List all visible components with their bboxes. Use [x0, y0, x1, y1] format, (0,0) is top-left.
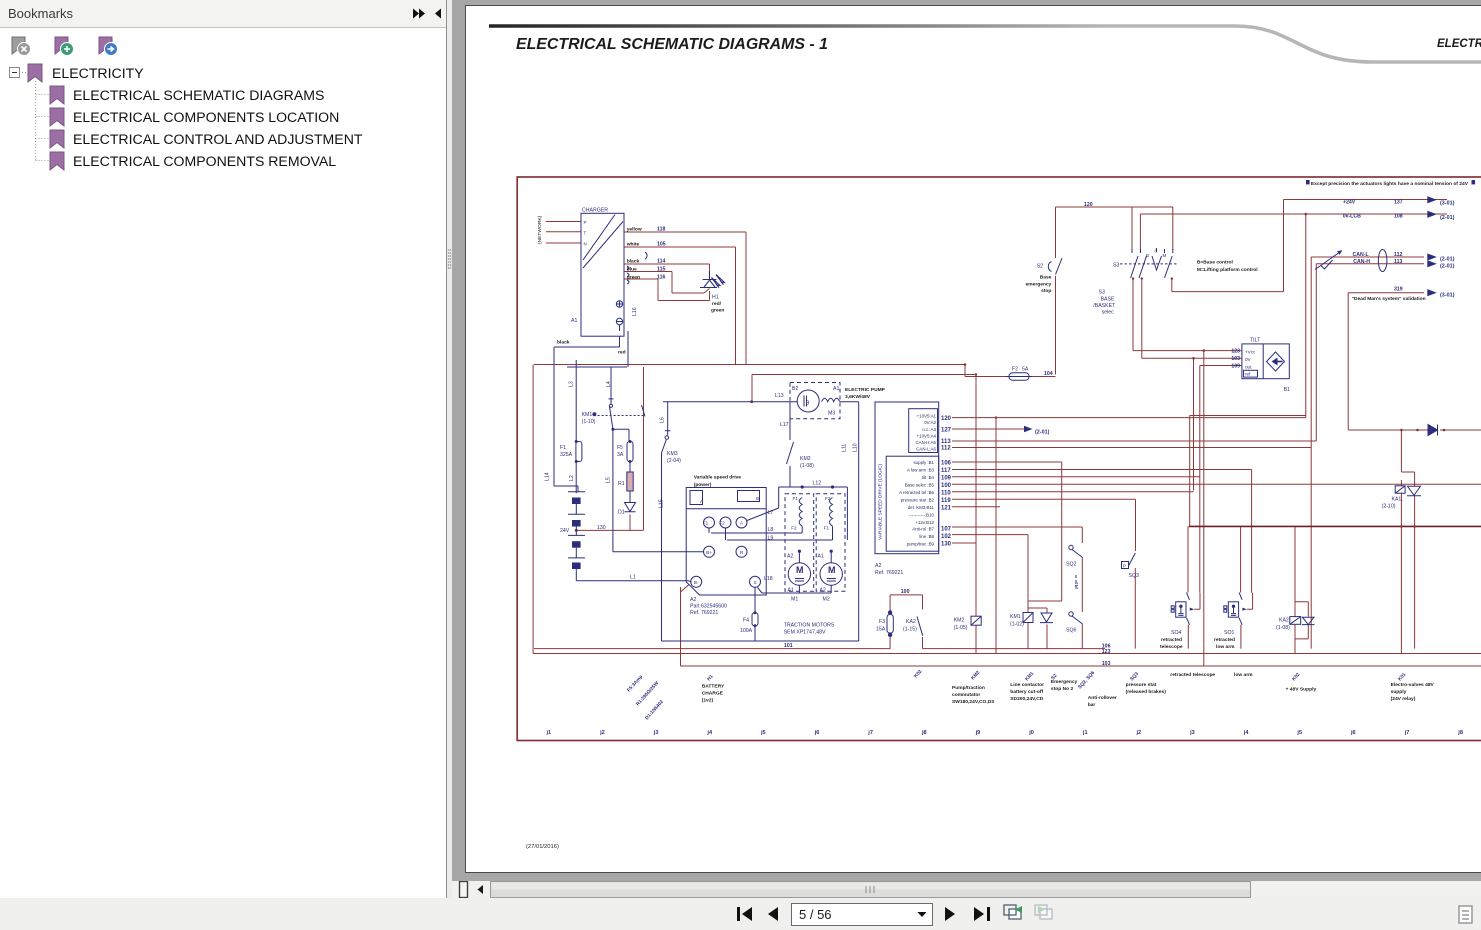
svg-text:108: 108 [1394, 214, 1403, 220]
svg-text:F2: F2 [791, 526, 797, 531]
svg-text:113: 113 [1394, 259, 1402, 265]
svg-text:130: 130 [597, 525, 606, 531]
svg-text:bar: bar [1088, 702, 1096, 708]
svg-text:stop: stop [1041, 288, 1051, 294]
svg-text:KM1: KM1 [1010, 614, 1021, 620]
svg-text:(1-08): (1-08) [1276, 625, 1290, 631]
svg-text:A1: A1 [833, 386, 839, 392]
svg-text:A low arm :B3: A low arm :B3 [907, 468, 935, 473]
svg-text:Anti-rol :B7: Anti-rol :B7 [912, 527, 934, 532]
svg-text:Pump/traction: Pump/traction [952, 685, 985, 691]
svg-text:(1-08): (1-08) [800, 463, 814, 469]
svg-text:line :B8: line :B8 [919, 534, 934, 539]
svg-text:H1: H1 [712, 295, 719, 301]
svg-text:117: 117 [941, 468, 951, 474]
svg-text:"Dead Man's system" validation: "Dead Man's system" validation [1352, 296, 1426, 302]
svg-text:113: 113 [941, 439, 951, 445]
svg-text:103: 103 [1102, 661, 1111, 667]
svg-text:A2: A2 [820, 588, 826, 594]
svg-text:130: 130 [941, 542, 952, 548]
svg-text:+10V5:A1: +10V5:A1 [917, 414, 937, 419]
svg-text:L7: L7 [768, 510, 774, 516]
svg-text:black: black [627, 259, 640, 265]
svg-text:stop No 2: stop No 2 [1051, 686, 1074, 692]
svg-text:119: 119 [941, 498, 951, 504]
svg-text:red/: red/ [712, 301, 722, 307]
svg-text:Electro-valves 48V: Electro-valves 48V [1391, 682, 1435, 688]
svg-text:CAN-H: CAN-H [1353, 259, 1370, 265]
svg-text:L10: L10 [853, 443, 859, 452]
svg-text:319: 319 [1394, 287, 1403, 293]
svg-text:127: 127 [941, 428, 952, 434]
svg-text:low arm: low arm [1234, 672, 1253, 678]
svg-text:105: 105 [657, 242, 666, 248]
svg-text:L4: L4 [606, 381, 612, 387]
svg-text:(2-01): (2-01) [1440, 257, 1455, 263]
svg-text:red: red [618, 350, 626, 356]
svg-text:M3: M3 [828, 411, 835, 417]
svg-text:P: P [1123, 563, 1126, 568]
svg-text:15A: 15A [876, 627, 886, 633]
svg-text:battery cut-off: battery cut-off [1010, 689, 1043, 695]
svg-text:L3: L3 [569, 381, 575, 387]
svg-text:Base selec :B5: Base selec :B5 [905, 483, 935, 488]
svg-text:out: out [1245, 365, 1252, 370]
svg-text:emergency: emergency [1026, 281, 1052, 287]
svg-text:SQ3: SQ3 [1129, 573, 1139, 579]
svg-text:L2: L2 [569, 475, 575, 481]
svg-text:ELECTRICAL SCHEMATIC DIAGRAMS: ELECTRICAL SCHEMATIC DIAGRAMS - 1 [516, 36, 828, 53]
svg-text:123: 123 [1102, 649, 1111, 655]
svg-text:pump/trac :B9: pump/trac :B9 [907, 542, 935, 547]
svg-text:white: white [626, 242, 640, 248]
svg-text:B+: B+ [706, 550, 712, 555]
svg-text:3,6KW/48V: 3,6KW/48V [845, 394, 871, 400]
svg-text:ϳ8: ϳ8 [921, 730, 927, 736]
svg-text:(2-04): (2-04) [667, 458, 681, 464]
svg-text:(power): (power) [694, 482, 712, 488]
svg-text:A2: A2 [787, 554, 793, 560]
svg-text:SQ2: SQ2 [1066, 562, 1076, 568]
svg-text:F1: F1 [793, 496, 799, 501]
svg-text:KM1: KM1 [582, 412, 593, 418]
svg-text:M: M [796, 565, 804, 575]
svg-text:KM2: KM2 [954, 618, 965, 624]
svg-text:(2-10): (2-10) [1382, 504, 1396, 510]
svg-text:0V: 0V [1245, 357, 1252, 362]
svg-text:S: S [753, 580, 756, 585]
svg-text:B=Base control: B=Base control [1197, 260, 1234, 266]
svg-text:blue: blue [627, 267, 637, 273]
svg-text:BASE: BASE [1101, 297, 1115, 303]
svg-text:M: M [1163, 253, 1167, 258]
svg-text:D1: D1 [618, 510, 625, 516]
svg-text:ɜ: ɜ [806, 400, 809, 407]
svg-text:5 / 56: 5 / 56 [799, 907, 832, 922]
svg-text:ELECTRICAL COMPONENTS LOCATION: ELECTRICAL COMPONENTS LOCATION [73, 109, 339, 125]
svg-text:T: T [584, 231, 587, 236]
svg-text:/BASKET: /BASKET [1093, 303, 1116, 309]
svg-text:F2: F2 [825, 496, 831, 501]
svg-text:+12v:B12: +12v:B12 [915, 520, 934, 525]
svg-text:F1: F1 [824, 526, 830, 531]
svg-text:ELECTRIC: ELECTRIC [1437, 38, 1481, 50]
svg-text:0v-LCB: 0v-LCB [1343, 214, 1361, 220]
svg-text:SEM XP1747,48V: SEM XP1747,48V [784, 630, 826, 636]
svg-text:+ 48V Supply: + 48V Supply [1286, 687, 1317, 693]
svg-text:123: 123 [1231, 349, 1240, 355]
svg-text:KA2: KA2 [906, 619, 916, 625]
svg-text:F4: F4 [743, 618, 749, 624]
svg-text:137: 137 [1394, 200, 1403, 206]
svg-text:B: B [756, 496, 759, 501]
svg-text:CAN-H:A5: CAN-H:A5 [916, 440, 937, 445]
svg-text:L16: L16 [632, 307, 638, 316]
svg-text:116: 116 [657, 275, 665, 281]
svg-text:Line contactor: Line contactor [1010, 682, 1044, 688]
svg-text:S3: S3 [1099, 290, 1105, 296]
svg-text:ϳ2: ϳ2 [1136, 730, 1142, 736]
svg-text:A2: A2 [875, 563, 881, 569]
svg-text:100A: 100A [740, 628, 753, 634]
svg-text:L13: L13 [775, 393, 784, 399]
svg-text:120: 120 [941, 416, 952, 422]
svg-text:(2-01): (2-01) [1440, 215, 1455, 221]
svg-text:B-: B- [694, 580, 699, 585]
svg-text:low arm: low arm [1216, 644, 1235, 650]
svg-text:R1: R1 [618, 481, 625, 487]
svg-text:A1: A1 [571, 318, 577, 324]
svg-text:ϳ7: ϳ7 [1404, 730, 1410, 736]
svg-text:(3-01): (3-01) [1440, 293, 1455, 299]
svg-text:black: black [557, 340, 570, 346]
svg-text:Except precision the actuators: Except precision the actuators lights ha… [1311, 181, 1469, 187]
svg-text:L17: L17 [780, 422, 789, 428]
svg-text:SO1: SO1 [1224, 630, 1234, 636]
svg-text:0V:A2: 0V:A2 [924, 420, 936, 425]
svg-text:M=Lifting platform control: M=Lifting platform control [1197, 267, 1258, 273]
svg-text:-----------:B10: -----------:B10 [909, 513, 935, 518]
svg-text:(2-01): (2-01) [1035, 430, 1050, 436]
svg-text:(1-10): (1-10) [582, 419, 596, 425]
svg-text:101: 101 [784, 643, 793, 649]
svg-text:L12: L12 [813, 481, 822, 487]
svg-text:(1-15): (1-15) [903, 627, 917, 633]
svg-text:S3: S3 [1113, 263, 1119, 269]
svg-text:B1: B1 [1284, 387, 1290, 393]
svg-text:A1: A1 [818, 554, 824, 560]
svg-text:L6: L6 [660, 417, 666, 423]
svg-text:115: 115 [657, 267, 665, 273]
svg-text:109: 109 [1231, 364, 1240, 370]
svg-text:ϳ9: ϳ9 [975, 730, 981, 736]
svg-text:ELECTRIC PUMP: ELECTRIC PUMP [845, 387, 886, 393]
svg-text:M: M [828, 565, 836, 575]
svg-text:A2: A2 [690, 597, 696, 603]
svg-text:commutator: commutator [952, 692, 980, 698]
svg-text:0: 0 [1155, 249, 1158, 254]
svg-text:112: 112 [1394, 252, 1402, 258]
svg-text:ϳ5: ϳ5 [1296, 730, 1302, 736]
svg-text:F2: F2 [1012, 367, 1018, 373]
svg-text:retracted telescope: retracted telescope [1170, 672, 1215, 678]
svg-text:retracted: retracted [1161, 637, 1182, 643]
svg-text:L14: L14 [545, 472, 551, 481]
svg-text:L11: L11 [1074, 581, 1079, 589]
svg-text:104: 104 [1044, 371, 1053, 377]
svg-text:+10V5:A4: +10V5:A4 [917, 434, 937, 439]
svg-text:F3: F3 [879, 619, 885, 625]
svg-text:L15: L15 [659, 499, 665, 508]
svg-text:(3-01): (3-01) [1440, 201, 1455, 207]
svg-text:TILT: TILT [1250, 338, 1261, 344]
svg-text:ELECTRICAL SCHEMATIC DIAGRAMS: ELECTRICAL SCHEMATIC DIAGRAMS [73, 87, 324, 103]
svg-text:Anti-rollover: Anti-rollover [1088, 695, 1117, 701]
svg-text:CHARGE: CHARGE [702, 691, 724, 697]
svg-text:109: 109 [941, 476, 952, 482]
svg-text:F5: F5 [617, 445, 623, 451]
svg-text:B: B [1146, 253, 1149, 258]
svg-text:118: 118 [657, 227, 665, 233]
svg-text:+Vcc: +Vcc [1245, 350, 1256, 355]
svg-text:telescope: telescope [1160, 644, 1183, 650]
svg-text:106: 106 [941, 461, 952, 467]
svg-text:supply: supply [1391, 689, 1407, 695]
svg-text:(NETWORK): (NETWORK) [537, 215, 543, 244]
svg-text:L8: L8 [768, 527, 774, 533]
svg-text:F1: F1 [703, 521, 709, 526]
svg-text:KM3: KM3 [667, 451, 678, 457]
svg-text:CAN-L: CAN-L [1353, 252, 1370, 258]
svg-text:ϳ4: ϳ4 [1243, 730, 1250, 736]
svg-text:110: 110 [941, 491, 951, 497]
svg-text:SQ6: SQ6 [1066, 628, 1076, 634]
svg-text:Ref. 769221: Ref. 769221 [875, 570, 903, 576]
svg-text:SD200,24V,CD: SD200,24V,CD [1010, 696, 1043, 702]
svg-text:CHARGER: CHARGER [582, 208, 608, 214]
svg-text:ϳ0: ϳ0 [1028, 730, 1034, 736]
svg-text:A1: A1 [788, 588, 794, 594]
svg-text:Part 632545600: Part 632545600 [690, 604, 727, 610]
svg-text:N: N [584, 242, 587, 247]
svg-text:(1-02): (1-02) [1010, 622, 1024, 628]
svg-text:ϳ5: ϳ5 [760, 730, 766, 736]
svg-text:F1: F1 [560, 445, 566, 451]
svg-text:102: 102 [941, 534, 952, 540]
svg-text:TRACTION MOTORS: TRACTION MOTORS [784, 623, 835, 629]
svg-text:yellow: yellow [627, 227, 642, 233]
svg-text:ϳ4: ϳ4 [706, 730, 713, 736]
svg-text:L5: L5 [606, 477, 612, 483]
svg-text:(1v2): (1v2) [702, 698, 714, 704]
svg-text:green: green [711, 308, 724, 314]
svg-text:Ref. 769221: Ref. 769221 [690, 610, 718, 616]
svg-text:ELECTRICAL COMPONENTS REMOVAL: ELECTRICAL COMPONENTS REMOVAL [73, 153, 336, 169]
svg-text:det. KM3:B11: det. KM3:B11 [908, 505, 935, 510]
svg-text:P: P [584, 220, 587, 225]
svg-text:S2: S2 [1037, 264, 1043, 270]
svg-text:F2: F2 [719, 521, 725, 526]
svg-text:A retracted tel :B6: A retracted tel :B6 [899, 490, 934, 495]
svg-text:ϳ7: ϳ7 [867, 730, 873, 736]
svg-text:114: 114 [657, 259, 665, 265]
svg-text:+24V: +24V [1343, 200, 1356, 206]
svg-text:100: 100 [901, 589, 910, 595]
svg-text:120: 120 [1084, 202, 1093, 208]
svg-text:tilt :B4: tilt :B4 [922, 475, 935, 480]
svg-text:L9: L9 [768, 536, 774, 542]
svg-text:ϳ6: ϳ6 [1350, 730, 1356, 736]
svg-text:(1-05): (1-05) [954, 625, 968, 631]
svg-text:107: 107 [941, 527, 952, 533]
svg-text:KA2: KA2 [1279, 618, 1289, 624]
svg-text:pressure stat :B2: pressure stat :B2 [901, 498, 935, 503]
svg-text:BATTERY: BATTERY [702, 684, 725, 690]
svg-text:325A: 325A [560, 452, 573, 458]
svg-text:Base: Base [1040, 274, 1052, 280]
svg-text:103: 103 [1231, 356, 1240, 362]
svg-text:KM2: KM2 [800, 456, 811, 462]
svg-text:SO4: SO4 [1171, 630, 1181, 636]
svg-text:supply :B1: supply :B1 [913, 460, 934, 465]
svg-text:ϳ8: ϳ8 [1457, 730, 1463, 736]
svg-text:Emergency: Emergency [1051, 679, 1078, 685]
svg-text:(2-01): (2-01) [1440, 264, 1455, 270]
svg-text:ϳ1: ϳ1 [1082, 730, 1088, 736]
svg-text:ϳ6: ϳ6 [814, 730, 820, 736]
svg-text:Variable speed drive: Variable speed drive [694, 475, 742, 481]
svg-text:SW180,24V,CO,DS: SW180,24V,CO,DS [952, 699, 995, 705]
svg-text:n.c.:A3: n.c.:A3 [922, 427, 936, 432]
svg-text:ϳ2: ϳ2 [599, 730, 605, 736]
svg-text:CAN-L:A6: CAN-L:A6 [916, 447, 936, 452]
svg-text:ELECTRICAL CONTROL AND ADJUSTM: ELECTRICAL CONTROL AND ADJUSTMENT [73, 131, 363, 147]
svg-text:ϳ1: ϳ1 [546, 730, 552, 736]
svg-text:3A: 3A [617, 452, 624, 458]
svg-text:pressure stat: pressure stat [1126, 682, 1157, 688]
svg-text:ref: ref [1245, 372, 1251, 377]
svg-text:B2: B2 [792, 386, 798, 392]
svg-text:L1: L1 [630, 575, 636, 581]
svg-text:M1: M1 [791, 597, 798, 603]
svg-text:retracted: retracted [1214, 637, 1235, 643]
svg-text:selec: selec [1102, 310, 1115, 316]
svg-text:121: 121 [941, 506, 952, 512]
svg-text:5A: 5A [1022, 367, 1029, 373]
svg-text:ϳ3: ϳ3 [653, 730, 659, 736]
svg-text:(released brakes): (released brakes) [1126, 689, 1167, 695]
svg-text:ELECTRICITY: ELECTRICITY [52, 65, 144, 81]
svg-text:VARIABLE SPEED DRIVE (LOGIC): VARIABLE SPEED DRIVE (LOGIC) [878, 463, 884, 540]
svg-text:112: 112 [941, 446, 951, 452]
svg-text:(24V relay): (24V relay) [1391, 696, 1416, 702]
svg-text:ϳ3: ϳ3 [1189, 730, 1195, 736]
svg-text:100: 100 [941, 483, 952, 489]
svg-text:L18: L18 [764, 576, 773, 582]
svg-text:green: green [627, 275, 640, 281]
svg-text:L11: L11 [842, 444, 848, 452]
svg-text:M2: M2 [823, 597, 830, 603]
svg-text:24V: 24V [560, 528, 570, 534]
svg-text:KA1,: KA1, [1392, 497, 1403, 503]
svg-text:(27/01/2016): (27/01/2016) [526, 844, 559, 850]
